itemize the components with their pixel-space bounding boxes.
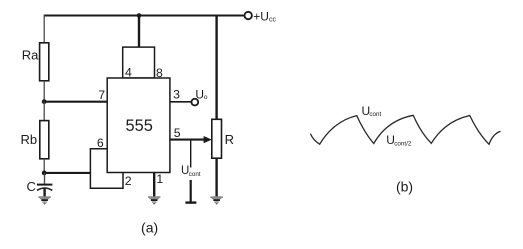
pin4/8 connector box xyxy=(123,47,155,78)
wire from rail down to pin4/8 box xyxy=(138,16,140,48)
wire left vertical from rail to Ra xyxy=(43,15,45,44)
resistor Ra xyxy=(40,43,49,81)
label Ucont/2 waveform xyxy=(386,133,412,147)
ground under pin 1 xyxy=(148,197,160,205)
svg-text:5: 5 xyxy=(174,126,181,140)
wire rail down to R xyxy=(215,16,217,120)
svg-text:R: R xyxy=(225,132,234,147)
wire top supply rail xyxy=(44,15,244,17)
svg-text:2: 2 xyxy=(125,174,132,188)
label Uo xyxy=(195,88,207,102)
label Ucont xyxy=(181,165,201,178)
wire pin6 pin2 loop xyxy=(90,149,123,189)
svg-text:8: 8 xyxy=(156,66,163,80)
wire pin 5 with arrow xyxy=(170,139,205,141)
svg-text:cont/2: cont/2 xyxy=(394,140,412,147)
svg-text:6: 6 xyxy=(97,136,104,150)
svg-text:Rb: Rb xyxy=(21,132,38,147)
wire pin 3 output xyxy=(170,101,192,103)
svg-text:C: C xyxy=(27,179,36,194)
wire node down to Rb xyxy=(43,102,45,121)
wire pin 1 to ground xyxy=(153,173,155,197)
terminal Uo xyxy=(191,99,198,106)
capacitor C bottom curved plate xyxy=(37,188,52,190)
wire R bottom to ground xyxy=(215,158,217,196)
svg-text:Ra: Ra xyxy=(22,47,39,62)
svg-text:(a): (a) xyxy=(141,220,158,236)
label Ucont waveform xyxy=(362,104,382,118)
label +Ucc xyxy=(253,9,276,23)
svg-text:cc: cc xyxy=(269,16,277,23)
wire Ucont terminal xyxy=(190,180,192,202)
waveform Ucont sawtooth xyxy=(310,115,500,144)
wire node to pin6/2 loop xyxy=(44,172,90,174)
wire Ucont tap xyxy=(190,140,192,168)
wire Ra bottom to node xyxy=(43,81,45,102)
resistor Rb xyxy=(40,121,49,159)
svg-text:4: 4 xyxy=(125,66,132,80)
svg-text:555: 555 xyxy=(126,117,153,135)
wire capacitor to ground xyxy=(43,188,45,196)
svg-text:7: 7 xyxy=(98,88,105,102)
svg-text:(b): (b) xyxy=(396,179,413,195)
ground under C xyxy=(38,197,50,205)
svg-text:+U: +U xyxy=(253,9,269,23)
arrowhead pin 5 xyxy=(204,136,212,143)
terminal +Ucc xyxy=(245,12,252,19)
wire node down to capacitor xyxy=(44,173,46,184)
svg-text:cont: cont xyxy=(369,111,381,118)
svg-text:cont: cont xyxy=(189,171,201,178)
ground under R xyxy=(210,197,222,205)
node junction dot Ra-Rb xyxy=(42,99,47,104)
svg-text:3: 3 xyxy=(173,87,180,101)
node junction dot top rail xyxy=(137,13,142,18)
wire Rb bottom to node xyxy=(43,159,45,173)
capacitor C top plate xyxy=(37,184,53,186)
node junction dot Rb-C xyxy=(42,171,47,176)
terminal bar Ucont xyxy=(185,201,196,203)
svg-text:1: 1 xyxy=(156,172,163,186)
resistor R xyxy=(212,119,222,158)
wire node to pin 7 xyxy=(44,101,107,103)
svg-text:o: o xyxy=(204,94,208,101)
op-amp U1 555 timer box xyxy=(107,78,170,173)
